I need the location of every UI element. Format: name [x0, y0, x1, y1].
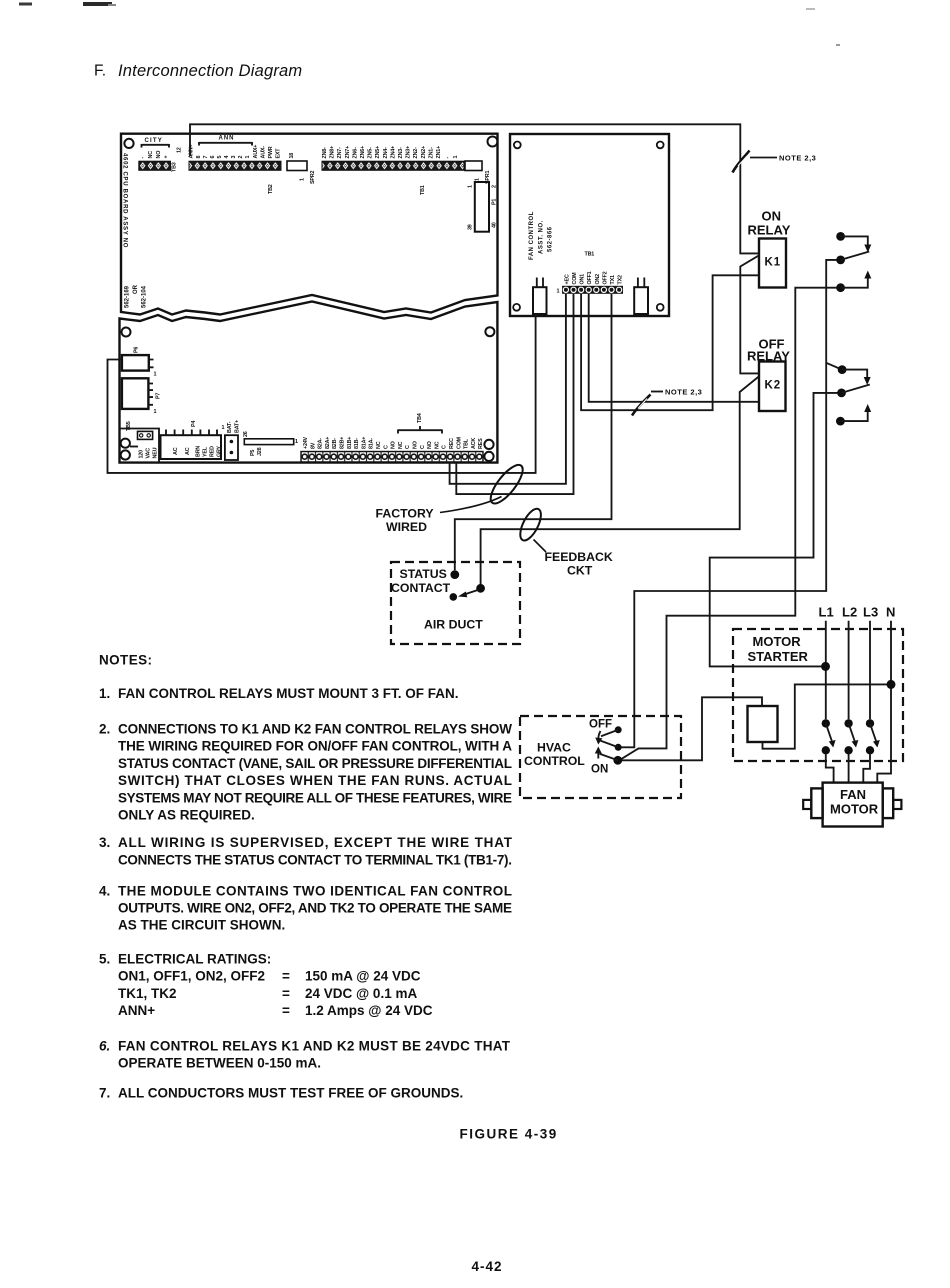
wire K1 contact common to HVAC middle [621, 260, 841, 747]
fan board hole TR [657, 142, 664, 149]
wire K2 coil diagonal and feedback drop [481, 376, 759, 584]
fan motor right shaft [893, 800, 901, 809]
hvac OFF contact arm [601, 730, 618, 736]
svg-text:FACTORY: FACTORY [376, 507, 434, 521]
hvac down arrow [595, 731, 602, 745]
wire +EC to CPU REC [450, 294, 566, 484]
svg-text:C: C [420, 445, 426, 449]
svg-text:HVAC: HVAC [537, 741, 571, 755]
svg-text:1: 1 [222, 425, 225, 431]
svg-text:ACK: ACK [471, 438, 477, 449]
svg-text:6.: 6. [99, 1038, 110, 1053]
starter coil box [748, 706, 778, 742]
svg-text:ON: ON [762, 209, 782, 224]
svg-text:AUX-: AUX- [261, 146, 267, 159]
svg-text:FIGURE 4-39: FIGURE 4-39 [460, 1127, 558, 1142]
mounting hole lower TR [485, 327, 494, 336]
connector P4 [161, 421, 225, 459]
label FEEDBACK CKT [545, 550, 613, 578]
svg-text:STATUS CONTACT (VANE, SAIL OR: STATUS CONTACT (VANE, SAIL OR PRESSURE D… [118, 756, 512, 771]
wire K2 contact to L1 junction [710, 393, 842, 667]
svg-text:4602 CPU BOARD ASSY NO: 4602 CPU BOARD ASSY NO [122, 153, 128, 248]
svg-text:1.: 1. [99, 686, 110, 701]
mounting holes lower BR pair [484, 440, 493, 449]
svg-text:NO: NO [156, 151, 162, 159]
svg-text:STATUS: STATUS [400, 567, 447, 581]
svg-text:ZN4-: ZN4- [383, 147, 389, 159]
wire L1 [826, 621, 834, 783]
svg-text:81A-: 81A- [369, 438, 375, 449]
svg-text:39: 39 [468, 224, 474, 230]
svg-text:1: 1 [557, 289, 560, 295]
note 2,3 slash lower [632, 388, 702, 416]
svg-text:ALL CONDUCTORS MUST TEST FREE: ALL CONDUCTORS MUST TEST FREE OF GROUNDS… [118, 1085, 463, 1100]
fan control board outline [510, 134, 669, 316]
TB4 pin labels [303, 436, 484, 449]
svg-text:SPR2: SPR2 [310, 171, 316, 184]
status contact fixed dot [450, 570, 459, 579]
svg-text:N: N [886, 605, 895, 620]
fan board left connector [533, 278, 547, 315]
label MOTOR STARTER [748, 634, 809, 664]
svg-text:P6: P6 [134, 347, 140, 353]
TB3 pin labels - NC NO + [140, 151, 170, 159]
svg-text:WIRED: WIRED [386, 520, 427, 534]
svg-text:PWR: PWR [268, 146, 274, 158]
CPU board number text 562-169 OR 562-104 [125, 284, 148, 308]
connector SPR2 [287, 153, 316, 184]
hvac middle contact arm [598, 740, 618, 748]
connector BAT [225, 420, 241, 460]
svg-text:TX2: TX2 [618, 275, 624, 284]
label OFF RELAY [747, 337, 790, 364]
svg-text:12: 12 [177, 147, 183, 153]
svg-text:TX1: TX1 [610, 275, 616, 284]
svg-text:TB2: TB2 [268, 184, 274, 194]
note 2,3 slash upper [733, 151, 817, 173]
svg-text:BAT-: BAT- [227, 421, 233, 433]
K2 contact set [836, 365, 871, 425]
svg-text:FAN CONTROL RELAYS MUST MOUNT: FAN CONTROL RELAYS MUST MOUNT 3 FT. OF F… [118, 686, 459, 701]
fan board right connector [634, 278, 648, 315]
svg-text:ZN4+: ZN4+ [390, 146, 396, 159]
svg-text:ZN3+: ZN3+ [406, 146, 412, 159]
svg-text:TK1, TK2: TK1, TK2 [118, 986, 177, 1001]
svg-text:K1: K1 [765, 257, 782, 269]
VAC area sub-box [119, 429, 160, 462]
svg-text:REC: REC [449, 438, 455, 449]
svg-text:C: C [442, 445, 448, 449]
wire L2 [848, 621, 850, 783]
svg-text:ON1, OFF1, ON2, OFF2: ON1, OFF1, ON2, OFF2 [118, 969, 265, 984]
CPU board lower section outline [120, 302, 498, 463]
svg-text:ANN+: ANN+ [118, 1003, 155, 1018]
svg-text:TB4: TB4 [417, 413, 423, 423]
svg-text:CONNECTIONS TO K1 AND K2 FAN C: CONNECTIONS TO K1 AND K2 FAN CONTROL REL… [118, 722, 512, 737]
svg-text:OFF: OFF [589, 719, 612, 731]
svg-text:7: 7 [203, 156, 209, 159]
svg-text:ZN2+: ZN2+ [421, 146, 427, 159]
terminal strip TB3 [139, 161, 171, 170]
svg-text:150 mA @ 24 VDC: 150 mA @ 24 VDC [305, 969, 421, 984]
svg-text:P5: P5 [250, 450, 256, 456]
svg-text:FEEDBACK: FEEDBACK [545, 550, 613, 564]
svg-text:1: 1 [245, 156, 251, 159]
svg-text:562-169: 562-169 [125, 285, 131, 308]
svg-text:NC: NC [398, 441, 404, 449]
hvac ON contact arm [600, 754, 618, 761]
label ON RELAY [748, 209, 791, 238]
hvac ON contact dot [613, 756, 622, 765]
svg-text:+EC: +EC [564, 274, 570, 284]
wire N [877, 621, 891, 783]
starter contact L1 [822, 719, 836, 754]
svg-text:FAN: FAN [840, 787, 866, 802]
svg-text:7.: 7. [99, 1085, 110, 1100]
svg-text:RELAY: RELAY [748, 223, 791, 238]
terminal strip TB1 [322, 161, 464, 170]
svg-text:RED: RED [210, 446, 216, 457]
svg-text:ASST. NO.: ASST. NO. [539, 220, 545, 254]
svg-text:2: 2 [238, 156, 244, 159]
svg-text:562-866: 562-866 [548, 226, 554, 252]
svg-text:26: 26 [243, 431, 249, 437]
svg-text:NEU: NEU [153, 447, 159, 458]
svg-text:TB5: TB5 [126, 421, 132, 431]
svg-text:=: = [282, 969, 290, 984]
svg-text:OFF1: OFF1 [587, 271, 593, 284]
svg-text:ZN8+: ZN8+ [330, 146, 336, 159]
svg-text:8: 8 [196, 156, 202, 159]
svg-text:3.: 3. [99, 835, 110, 850]
label HVAC CONTROL [524, 741, 585, 769]
labels L1 L2 L3 N [819, 605, 896, 620]
mounting hole upper TL [124, 139, 133, 148]
feedback ckt loop ellipse [516, 506, 545, 544]
fan board hole TL [514, 142, 521, 149]
svg-text:BAT+: BAT+ [235, 420, 241, 433]
svg-text:FAN CONTROL: FAN CONTROL [529, 211, 535, 260]
TB2 pin labels ANN+ 8..1 AUX PWR EXT [189, 144, 282, 158]
svg-text:=: = [282, 986, 290, 1001]
svg-text:ZN7+: ZN7+ [345, 146, 351, 159]
svg-text:4-42: 4-42 [472, 1259, 503, 1274]
svg-text:AS THE CIRCUIT SHOWN.: AS THE CIRCUIT SHOWN. [118, 918, 285, 933]
svg-text:4.: 4. [99, 883, 110, 898]
svg-text:CONTACT: CONTACT [391, 581, 451, 595]
svg-text:ZN1+: ZN1+ [436, 146, 442, 159]
wire ANN+ supply to relays [190, 124, 759, 253]
svg-text:ANN: ANN [219, 136, 235, 142]
svg-text:5: 5 [217, 156, 223, 159]
motor starter dashed box [733, 629, 903, 761]
svg-text:NO: NO [427, 441, 433, 449]
svg-text:OPERATE BETWEEN 0-150 mA.: OPERATE BETWEEN 0-150 mA. [118, 1056, 321, 1071]
svg-text:L3: L3 [863, 605, 878, 620]
svg-text:ZN8-: ZN8- [322, 147, 328, 159]
svg-text:+: + [164, 156, 170, 159]
wire HVAC ON to starter coil [621, 697, 763, 760]
svg-text:AC: AC [173, 447, 179, 455]
svg-text:81A+: 81A+ [361, 437, 367, 449]
svg-text:C: C [383, 445, 389, 449]
svg-text:2: 2 [492, 185, 498, 188]
svg-text:VAC: VAC [146, 448, 152, 459]
svg-text:L2: L2 [842, 605, 857, 620]
hvac up arrow [595, 747, 602, 759]
svg-text:CONNECTS THE STATUS CONTACT TO: CONNECTS THE STATUS CONTACT TO TERMINAL … [118, 852, 512, 867]
status contact moving dot [450, 593, 458, 601]
svg-text:P4: P4 [191, 421, 197, 427]
svg-text:82B+: 82B+ [340, 437, 346, 449]
hvac OFF contact dot [615, 726, 622, 733]
svg-text:ZN1-: ZN1- [428, 147, 434, 159]
status contact arm arrow [458, 590, 477, 597]
junction dot N [887, 680, 896, 689]
terminal strip TB1 fan board [562, 286, 623, 294]
fan TB1 pin labels [564, 271, 623, 284]
svg-text:=: = [282, 1003, 290, 1018]
svg-text:TB1: TB1 [585, 252, 595, 258]
svg-text:AUX+: AUX+ [253, 145, 259, 159]
mounting holes lower BL pair [121, 439, 130, 448]
svg-text:1: 1 [154, 409, 157, 415]
svg-text:P7: P7 [156, 393, 162, 399]
hvac control dashed box [520, 716, 681, 798]
connector P7 [122, 378, 162, 415]
svg-text:ON1: ON1 [580, 274, 586, 285]
fan board hole BR [657, 304, 664, 311]
fan board name text FAN CONTROL ASST. NO. 562-866 [529, 211, 554, 260]
label STATUS CONTACT [391, 567, 451, 595]
feedback ckt leader [534, 540, 547, 553]
svg-text:ZN3-: ZN3- [398, 147, 404, 159]
relay K1 box [759, 239, 786, 288]
svg-text:ZN5-: ZN5- [368, 147, 374, 159]
svg-text:3: 3 [231, 156, 237, 159]
svg-text:NC: NC [148, 151, 154, 159]
svg-text:P1: P1 [492, 199, 498, 205]
svg-text:EXT: EXT [276, 148, 282, 159]
svg-text:OR: OR [133, 284, 139, 294]
connector P5 / J28 [243, 431, 298, 456]
svg-text:YEL: YEL [203, 446, 209, 457]
svg-text:SYSTEMS MAY NOT REQUIRE ALL OF: SYSTEMS MAY NOT REQUIRE ALL OF THESE FEA… [118, 790, 512, 805]
relay K2 box [759, 362, 786, 412]
svg-text:AC: AC [185, 447, 191, 455]
svg-text:TB1: TB1 [420, 185, 426, 195]
connector P6 [122, 347, 157, 378]
svg-text:82A+: 82A+ [325, 437, 331, 449]
svg-text:K2: K2 [765, 380, 782, 392]
svg-text:CONTROL: CONTROL [524, 754, 585, 768]
wire TX1 to status contact [455, 294, 612, 570]
svg-text:NOTES:: NOTES: [99, 653, 152, 668]
starter contact L2 [844, 719, 858, 754]
svg-text:562-104: 562-104 [142, 285, 148, 308]
svg-text:MOTOR: MOTOR [830, 802, 879, 817]
svg-text:ZN6+: ZN6+ [360, 146, 366, 159]
starter contact L3 [866, 719, 880, 754]
wire K1 coil diagonal to common vertical [740, 255, 759, 373]
svg-text:GRY: GRY [217, 446, 223, 457]
scan artifact marks top edge [19, 2, 840, 46]
connector P1 [468, 182, 498, 232]
svg-text:MOTOR: MOTOR [753, 634, 802, 649]
wire OFF1 to K2 coil [589, 294, 759, 402]
wire fan fuse to P6 [108, 314, 536, 473]
hvac middle contact dot [615, 744, 622, 751]
svg-text:J28: J28 [257, 447, 263, 456]
svg-text:1: 1 [295, 439, 298, 445]
svg-text:8V: 8V [310, 442, 316, 449]
wire starter coil to N [763, 684, 889, 748]
svg-text:NO: NO [413, 441, 419, 449]
svg-text:NC: NC [434, 441, 440, 449]
svg-text:RES: RES [478, 438, 484, 449]
svg-text:AIR DUCT: AIR DUCT [424, 618, 483, 632]
svg-text:ON2: ON2 [595, 274, 601, 285]
fan motor left shaft [803, 800, 811, 809]
svg-text:1: 1 [300, 178, 306, 181]
svg-text:ONLY AS REQUIRED.: ONLY AS REQUIRED. [118, 808, 255, 823]
title: F. Interconnection Diagram [94, 62, 302, 80]
junction dot L1 [821, 662, 830, 671]
fan motor right flange [883, 788, 894, 818]
svg-text:1: 1 [154, 372, 157, 378]
svg-text:BRN: BRN [196, 446, 202, 457]
svg-text:ZN7-: ZN7- [337, 147, 343, 159]
svg-text:82A-: 82A- [318, 438, 324, 449]
wire K1 NO contact to HVAC ON [620, 288, 841, 760]
svg-text:82B-: 82B- [332, 438, 338, 449]
svg-text:ALL WIRING IS SUPERVISED, EXCE: ALL WIRING IS SUPERVISED, EXCEPT THE WIR… [118, 835, 513, 850]
label CITY with bracket [142, 138, 170, 148]
svg-text:ZN5+: ZN5+ [375, 146, 381, 159]
svg-text:TBL: TBL [464, 438, 470, 449]
svg-text:NOTE 2,3: NOTE 2,3 [779, 154, 816, 163]
connector 120VAC [130, 431, 159, 458]
TB1 pin labels ZN8..ZN1 [322, 146, 459, 159]
wire L3 [863, 621, 870, 783]
svg-text:THE MODULE CONTAINS TWO IDENTI: THE MODULE CONTAINS TWO IDENTICAL FAN CO… [118, 883, 512, 898]
CPU board upper section outline [121, 134, 498, 315]
label ANN with bracket [199, 136, 252, 146]
factory wired loop ellipse [485, 460, 527, 508]
svg-text:C: C [405, 445, 411, 449]
air duct dashed box [391, 562, 520, 644]
svg-text:NC: NC [376, 441, 382, 449]
svg-text:1: 1 [475, 178, 481, 181]
terminal strip TB4 [301, 452, 483, 463]
svg-text:FAN CONTROL RELAYS K1 AND K2 M: FAN CONTROL RELAYS K1 AND K2 MUST BE 24V… [118, 1038, 511, 1053]
svg-text:1.2 Amps @ 24 VDC: 1.2 Amps @ 24 VDC [305, 1003, 433, 1018]
svg-text:4: 4 [224, 156, 230, 159]
svg-text:2.: 2. [99, 722, 110, 737]
label FAN MOTOR [830, 787, 879, 817]
svg-text:ELECTRICAL RATINGS:: ELECTRICAL RATINGS: [118, 951, 271, 966]
svg-text:1: 1 [468, 185, 474, 188]
terminal strip TB2 (ANN) [189, 161, 281, 170]
svg-text:CITY: CITY [145, 138, 163, 144]
svg-text:ON: ON [591, 764, 608, 776]
svg-text:COM: COM [456, 436, 462, 449]
svg-text:81B+: 81B+ [347, 437, 353, 449]
svg-text:18: 18 [289, 153, 295, 159]
wire tap to K2 contact common [826, 363, 842, 370]
svg-text:40: 40 [492, 222, 498, 228]
svg-text:NO: NO [391, 441, 397, 449]
mounting hole upper TR [488, 137, 498, 147]
svg-text:CKT: CKT [567, 564, 593, 578]
svg-text:NOTE 2,3: NOTE 2,3 [665, 388, 702, 397]
label FACTORY WIRED [376, 507, 434, 535]
fan motor body [823, 783, 883, 827]
fan board hole BL [513, 304, 520, 311]
svg-text:COM: COM [572, 272, 578, 285]
svg-text:5.: 5. [99, 951, 110, 966]
svg-text:F.: F. [94, 63, 106, 80]
svg-text:TB3: TB3 [172, 162, 178, 172]
svg-text:120: 120 [139, 450, 145, 459]
svg-text:OUTPUTS. WIRE ON2, OFF2, AND T: OUTPUTS. WIRE ON2, OFF2, AND TK2 TO OPER… [118, 901, 512, 916]
svg-text:24 VDC @ 0.1 mA: 24 VDC @ 0.1 mA [305, 986, 417, 1001]
fan motor left flange [811, 788, 822, 818]
status contact feedback dot [476, 584, 485, 593]
wire ON1 to K1 coil [581, 275, 759, 410]
svg-text:SWITCH) THAT CLOSES WHEN THE F: SWITCH) THAT CLOSES WHEN THE FAN RUNS. A… [118, 773, 512, 788]
svg-text:81B-: 81B- [354, 438, 360, 449]
connector SPR1 [465, 161, 491, 184]
wire COM to CPU COM [456, 294, 573, 494]
label TB4 with bracket [398, 413, 442, 433]
svg-text:Interconnection Diagram: Interconnection Diagram [118, 62, 302, 80]
svg-text:OFF2: OFF2 [602, 271, 608, 284]
svg-text:1: 1 [453, 156, 459, 159]
svg-text:+24V: +24V [303, 436, 309, 449]
svg-text:STARTER: STARTER [748, 649, 809, 664]
factory wired leader [440, 497, 502, 513]
mounting hole lower TL [122, 328, 131, 337]
svg-text:6: 6 [210, 156, 216, 159]
svg-text:L1: L1 [819, 605, 834, 620]
svg-text:ZN2-: ZN2- [413, 147, 419, 159]
K1 contact set [836, 232, 871, 292]
svg-text:ZN6-: ZN6- [352, 147, 358, 159]
svg-text:THE WIRING REQUIRED FOR ON/OFF: THE WIRING REQUIRED FOR ON/OFF FAN CONTR… [118, 739, 512, 754]
